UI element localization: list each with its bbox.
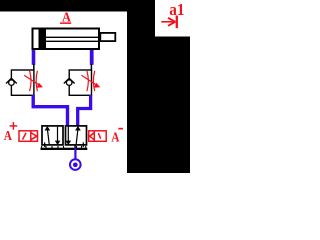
label A+ plus sign xyxy=(10,122,18,130)
down arrow xyxy=(57,127,59,141)
down arrow xyxy=(67,127,69,141)
cylinder A rod end plate xyxy=(100,33,115,41)
svg-text:A: A xyxy=(4,128,12,143)
pilot A+ (left) xyxy=(19,131,38,142)
up arrow xyxy=(48,130,50,144)
compressed air source xyxy=(70,159,81,170)
valve U1 right chamber arrows xyxy=(66,126,81,145)
canvas background xyxy=(0,0,190,173)
label A- minus sign xyxy=(118,128,123,130)
valve U1 right position square xyxy=(66,126,87,145)
V2 check valve seat xyxy=(64,78,69,83)
V2 adjustment arrow xyxy=(82,75,96,84)
top black band xyxy=(0,0,155,12)
wire left port to V1 xyxy=(33,64,35,71)
cylinder A left port xyxy=(32,50,36,65)
label A underline xyxy=(60,22,71,24)
up arrow xyxy=(76,130,78,144)
valve U1 left chamber arrows xyxy=(45,126,61,145)
cylinder A barrel xyxy=(33,29,100,50)
valve U1 left position square xyxy=(42,126,63,145)
wire V2 to valve port 2 xyxy=(78,95,91,126)
V2 check valve ball xyxy=(66,80,72,86)
valve U1 exhaust passages xyxy=(45,142,84,147)
cylinder A piston xyxy=(39,30,47,49)
wire right port to V2 xyxy=(90,64,92,71)
valve U1 bottom port bar xyxy=(41,148,88,150)
valve U1 bottom port ticks xyxy=(42,146,86,148)
wire supply to source xyxy=(74,148,76,159)
right black region xyxy=(127,12,190,174)
cylinder A piston rod xyxy=(46,36,101,38)
sensor panel (white box) xyxy=(155,0,190,37)
wire V1 to valve port 4 xyxy=(33,95,67,126)
V1 check valve ball xyxy=(9,80,15,86)
V2 throttle arcs xyxy=(87,71,88,91)
V1 throttle arcs xyxy=(30,71,31,91)
flow control valve V2 xyxy=(64,70,101,95)
svg-text:A: A xyxy=(111,130,119,145)
V1 check valve seat xyxy=(6,78,11,83)
limit switch a1 symbol xyxy=(161,16,177,29)
valve U1 supply port stub xyxy=(74,146,76,149)
cylinder A right port xyxy=(90,50,94,65)
V1 adjustment arrow xyxy=(24,75,38,84)
flow control valve V1 xyxy=(6,70,43,95)
pilot A- (right) xyxy=(89,131,107,142)
